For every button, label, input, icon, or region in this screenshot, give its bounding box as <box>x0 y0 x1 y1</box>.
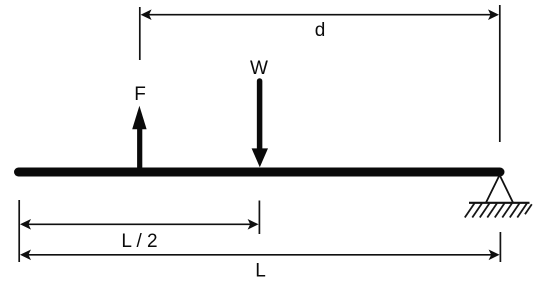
beam <box>19 168 501 177</box>
dimension d arrowhead right <box>488 9 499 20</box>
svg-text:d: d <box>315 20 326 41</box>
force W arrow shaft <box>257 81 263 150</box>
svg-text:W: W <box>250 58 268 79</box>
dimension L/2 extension line right <box>258 201 260 235</box>
ground line <box>469 202 530 204</box>
dimension L line <box>27 254 493 256</box>
dimension d line <box>148 14 492 16</box>
force F arrow shaft <box>137 128 142 171</box>
dimension d extension line left <box>139 7 141 60</box>
dimension L arrowhead right <box>489 250 500 261</box>
dimension L extension line right <box>499 232 501 262</box>
dimension L/2 and L shared extension line left <box>18 200 20 262</box>
svg-text:F: F <box>134 84 146 105</box>
force F arrowhead <box>132 106 146 129</box>
svg-text:L: L <box>255 261 266 282</box>
force W arrowhead <box>252 148 268 167</box>
ground hatching <box>465 203 532 217</box>
dimension L/2 arrowhead right <box>248 219 259 230</box>
dimension L/2 arrowhead left <box>20 219 31 230</box>
svg-text:L / 2: L / 2 <box>121 231 157 252</box>
dimension d arrowhead left <box>141 9 152 20</box>
dimension d extension line right <box>499 5 501 142</box>
dimension L/2 line <box>27 223 252 225</box>
pin support triangle <box>486 175 513 203</box>
dimension L arrowhead left <box>20 250 31 261</box>
